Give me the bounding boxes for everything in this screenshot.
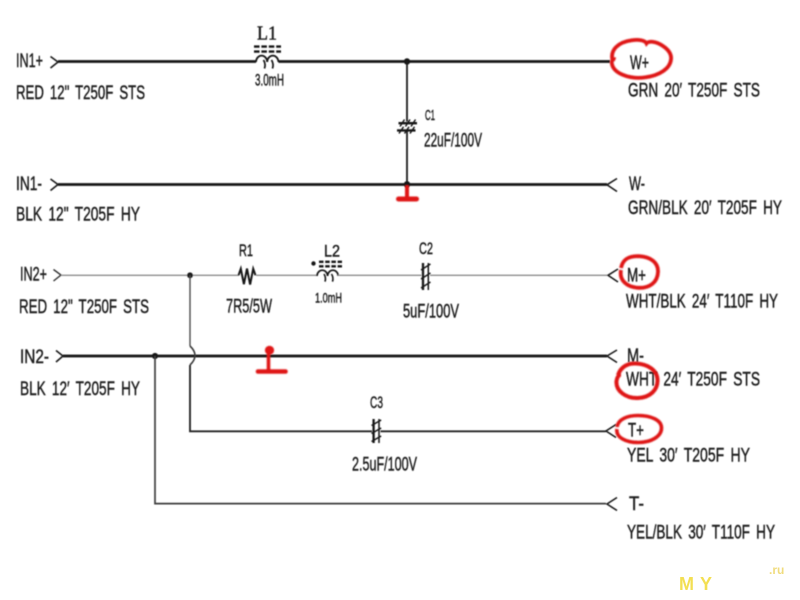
svg-text:BLK 12′ T205F HY: BLK 12′ T205F HY bbox=[20, 378, 140, 400]
output arrow M+ bbox=[608, 269, 618, 282]
svg-text:MY: MY bbox=[679, 574, 718, 594]
capacitor C3 bbox=[372, 419, 382, 443]
svg-text:YEL/BLK 30′ T110F HY: YEL/BLK 30′ T110F HY bbox=[627, 522, 775, 544]
input arrow IN2- bbox=[56, 351, 63, 363]
junction dot at C1 top bbox=[404, 58, 410, 64]
red ground mark under C1 bbox=[399, 185, 417, 199]
svg-text:7R5/5W: 7R5/5W bbox=[226, 296, 272, 318]
svg-text:IN2+: IN2+ bbox=[20, 265, 47, 286]
wire branch from IN2+ junction down bbox=[189, 275, 191, 346]
svg-text:M+: M+ bbox=[627, 265, 646, 287]
svg-text:RED 12" T250F STS: RED 12" T250F STS bbox=[19, 296, 149, 318]
svg-text:C3: C3 bbox=[370, 394, 383, 412]
svg-text:C1: C1 bbox=[425, 107, 435, 124]
wire IN2+ to R1 bbox=[61, 274, 239, 276]
wire L1 to W+ bbox=[279, 60, 611, 63]
wire R1 to L2 bbox=[256, 274, 317, 276]
svg-text:.ru: .ru bbox=[769, 563, 784, 577]
svg-text:2.5uF/100V: 2.5uF/100V bbox=[352, 454, 417, 476]
wire C2 to M+ bbox=[430, 274, 607, 276]
inductor L2 bbox=[311, 261, 342, 281]
output arrow T+ bbox=[606, 425, 616, 438]
svg-text:BLK 12" T205F HY: BLK 12" T205F HY bbox=[16, 204, 140, 226]
red annotation circle around W+ bbox=[612, 40, 671, 78]
capacitor C1 bbox=[397, 120, 417, 134]
svg-text:RED 12" T250F STS: RED 12" T250F STS bbox=[16, 82, 145, 104]
output arrow W- bbox=[607, 179, 617, 192]
svg-text:22uF/100V: 22uF/100V bbox=[424, 131, 482, 152]
wire C1 vertical top bbox=[406, 62, 408, 122]
svg-text:5uF/100V: 5uF/100V bbox=[403, 301, 459, 323]
wire IN1+ to L1 bbox=[58, 60, 256, 63]
red annotation circle around M+ bbox=[621, 256, 658, 288]
svg-text:C2: C2 bbox=[419, 240, 433, 258]
red annotation circle around T+ bbox=[617, 416, 662, 443]
junction dot at C1 bottom bbox=[404, 181, 410, 187]
svg-text:1.0mH: 1.0mH bbox=[315, 290, 342, 306]
junction dot IN2+ branch bbox=[187, 272, 193, 278]
red ground mark on IN2- line bbox=[258, 346, 286, 372]
svg-text:3.0mH: 3.0mH bbox=[255, 71, 284, 90]
svg-text:IN1+: IN1+ bbox=[16, 51, 43, 72]
resistor R1 bbox=[239, 269, 256, 285]
capacitor C2 bbox=[421, 263, 431, 290]
inductor L1 bbox=[254, 47, 281, 69]
wire IN1- to W- bbox=[58, 183, 607, 186]
input arrow IN2+ bbox=[54, 270, 62, 282]
wire IN2- to M- bbox=[63, 355, 607, 358]
junction dot IN2- branch bbox=[152, 353, 158, 359]
input arrow IN1- bbox=[51, 179, 59, 191]
input arrow IN1+ bbox=[51, 57, 59, 69]
svg-text:WHT 24′ T250F STS: WHT 24′ T250F STS bbox=[626, 369, 760, 391]
svg-text:W-: W- bbox=[629, 173, 645, 195]
svg-text:W+: W+ bbox=[630, 52, 649, 74]
svg-text:L2: L2 bbox=[324, 243, 340, 261]
svg-text:T-: T- bbox=[629, 493, 644, 515]
wire branch from IN2- junction down to T- bbox=[155, 356, 606, 504]
svg-text:WHT/BLK 24′ T110F HY: WHT/BLK 24′ T110F HY bbox=[626, 291, 778, 313]
wire C1 vertical bottom bbox=[406, 132, 408, 185]
svg-text:L1: L1 bbox=[257, 24, 277, 45]
svg-text:T+: T+ bbox=[628, 420, 644, 442]
svg-text:YEL 30′ T205F HY: YEL 30′ T205F HY bbox=[627, 445, 750, 467]
output arrow M- bbox=[607, 350, 617, 363]
svg-text:R1: R1 bbox=[239, 242, 253, 260]
wire L2 to C2 bbox=[338, 274, 422, 276]
wire hop over IN2- line bbox=[190, 346, 195, 365]
svg-text:IN2-: IN2- bbox=[20, 347, 49, 368]
svg-text:GRN 20′ T250F STS: GRN 20′ T250F STS bbox=[628, 80, 760, 102]
output arrow T- bbox=[607, 498, 617, 511]
wire hop to T+ row corner bbox=[190, 365, 372, 431]
svg-text:IN1-: IN1- bbox=[16, 174, 42, 195]
wire C3 to T+ bbox=[381, 430, 607, 432]
red annotation circle around WHT bbox=[616, 363, 657, 398]
svg-text:GRN/BLK 20′ T205F HY: GRN/BLK 20′ T205F HY bbox=[628, 197, 782, 219]
